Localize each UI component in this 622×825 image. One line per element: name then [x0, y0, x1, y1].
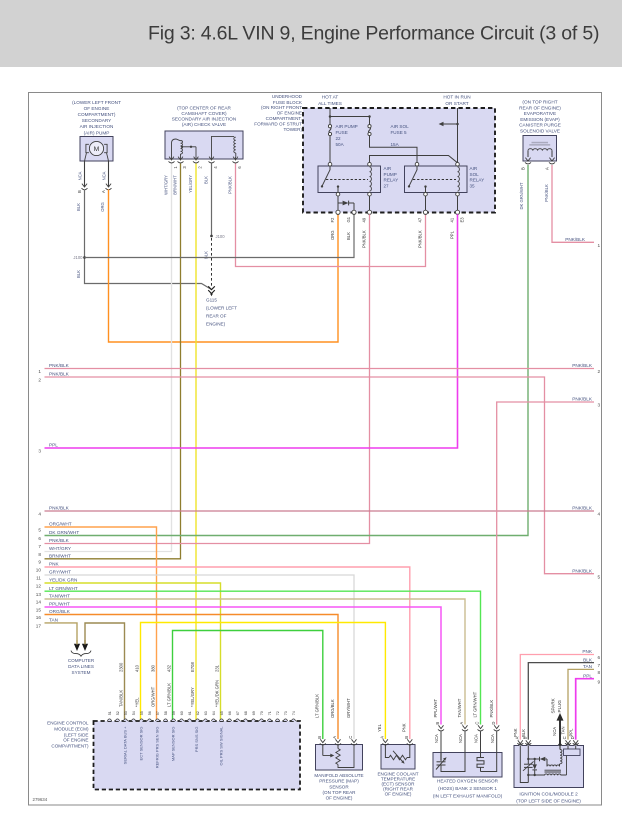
- wire ORG air pump A to fuse block pin F2: [100, 190, 338, 343]
- wire BRN/WHT check valve 3 to left edge 9: [45, 164, 181, 559]
- svg-text:4: 4: [38, 512, 41, 517]
- svg-text:ORG: ORG: [330, 230, 335, 240]
- check valve pin 3: [178, 157, 188, 169]
- svg-text:2: 2: [598, 369, 601, 374]
- svg-text:CANISTER PURGE: CANISTER PURGE: [519, 123, 561, 128]
- svg-text:YEL/GRY: YEL/GRY: [188, 175, 193, 193]
- svg-text:ECT SENSOR SIG: ECT SENSOR SIG: [139, 727, 144, 761]
- svg-text:74: 74: [292, 711, 296, 715]
- svg-text:YEL/DK GRN: YEL/DK GRN: [49, 578, 77, 583]
- left edge connector 14 TAN/WHT: [36, 594, 70, 605]
- fuse block pin 49 bushing: [362, 210, 372, 222]
- svg-text:PNK/BLK: PNK/BLK: [565, 237, 586, 242]
- svg-text:3: 3: [598, 403, 601, 408]
- svg-text:PNK/BLK: PNK/BLK: [489, 700, 494, 718]
- EVAP solenoid symbol: [528, 142, 552, 157]
- svg-text:OF ENGINE: OF ENGINE: [277, 111, 302, 116]
- svg-text:AIR PUMP: AIR PUMP: [336, 124, 358, 129]
- wire BLK check valve 4 to splice J100: [203, 164, 211, 259]
- wire LT GRN/WHT left edge 13 to HO2S pin C: [45, 591, 481, 724]
- svg-text:CAMSHAFT COVER): CAMSHAFT COVER): [181, 111, 227, 116]
- wire PNK/BLK EVAP A to right edge 1: [544, 165, 594, 242]
- svg-text:59: 59: [172, 711, 176, 715]
- svg-text:PNK: PNK: [402, 723, 407, 732]
- svg-text:SOL: SOL: [470, 172, 480, 177]
- left edge connector 3 PPL: [38, 443, 58, 454]
- left edge connector 10 PNK: [36, 562, 60, 573]
- wire relay coil jumper: [370, 156, 458, 163]
- svg-text:PNK/BLK: PNK/BLK: [572, 506, 593, 511]
- svg-text:TAN/WHT: TAN/WHT: [457, 698, 462, 717]
- svg-text:1: 1: [598, 243, 601, 248]
- svg-text:OR START: OR START: [445, 101, 468, 106]
- svg-text:BLK: BLK: [346, 232, 351, 240]
- wire YEL/DK GRN left edge 12 to ECM pin 65: [45, 583, 221, 721]
- feed wire hot in run to relay coils: [456, 108, 459, 163]
- left edge connector 4 PNK/BLK: [38, 506, 69, 517]
- svg-text:*YEL/DK GRN: *YEL/DK GRN: [214, 680, 219, 707]
- svg-text:51: 51: [108, 711, 112, 715]
- connector arrow inside fuse block: [439, 122, 458, 126]
- svg-text:PNK/BLK: PNK/BLK: [418, 230, 423, 248]
- svg-text:OF ENGINE: OF ENGINE: [63, 738, 88, 743]
- fuse block pin G1 bushing: [346, 210, 356, 222]
- svg-text:9: 9: [598, 679, 601, 684]
- svg-text:PNK: PNK: [582, 649, 593, 654]
- svg-text:TAN: TAN: [49, 618, 58, 623]
- left edge connector 6 DK GRN/WHT: [38, 530, 79, 541]
- svg-text:G115: G115: [206, 298, 217, 303]
- svg-text:63: 63: [204, 711, 208, 715]
- HO2S sensing element internals: [436, 753, 465, 772]
- svg-text:55: 55: [140, 711, 144, 715]
- relay K27 coil output: [369, 196, 371, 210]
- check valve pin 2: [193, 157, 203, 169]
- relay K35 switch: [408, 162, 456, 196]
- svg-text:TAN/WHT: TAN/WHT: [49, 594, 70, 599]
- motor symbol M: [85, 141, 109, 161]
- svg-text:52: 52: [116, 711, 120, 715]
- svg-text:BLK: BLK: [76, 270, 81, 278]
- svg-text:C: C: [475, 722, 480, 725]
- svg-text:FUSE: FUSE: [336, 130, 348, 135]
- svg-text:14: 14: [36, 600, 42, 605]
- svg-text:57: 57: [156, 711, 160, 715]
- svg-text:PNK/BLK: PNK/BLK: [572, 568, 593, 573]
- svg-text:NCA: NCA: [552, 727, 557, 736]
- wire TAN right edge 8 to ignition coil C: [568, 669, 594, 739]
- svg-text:B: B: [77, 190, 82, 193]
- svg-text:MAP SENSOR SIG: MAP SENSOR SIG: [171, 727, 176, 762]
- svg-text:5: 5: [38, 528, 41, 533]
- svg-text:PPL/WHT: PPL/WHT: [433, 698, 438, 717]
- svg-text:2: 2: [38, 378, 41, 383]
- svg-text:PPL: PPL: [49, 443, 58, 448]
- fuse block pin F2 bushing: [330, 210, 340, 222]
- svg-text:ENGINE CONTROL: ENGINE CONTROL: [47, 720, 89, 725]
- svg-text:TAN: TAN: [561, 726, 566, 734]
- ECM pin wire 231 *YEL/DK GRN labels: [214, 664, 223, 765]
- svg-text:BLK: BLK: [583, 657, 593, 662]
- wire PNK/BLK left 2 to right 5: [45, 377, 595, 574]
- svg-text:NCA: NCA: [434, 734, 439, 743]
- wire PNK/BLK right edge 3 to HO2S pin D: [497, 402, 594, 725]
- svg-text:G1: G1: [346, 216, 351, 222]
- svg-text:B: B: [317, 736, 322, 739]
- wire BLK splice J100 to relay pin G1: [85, 214, 355, 257]
- svg-text:PNK/BLK: PNK/BLK: [362, 230, 367, 248]
- splice J100 (air pump branch): [73, 255, 85, 260]
- right edge connector 8 TAN: [583, 664, 601, 675]
- svg-text:3: 3: [182, 166, 187, 169]
- left edge connector 8 WHT/GRY: [38, 546, 72, 557]
- right edge connector 3 PNK/BLK: [572, 397, 600, 408]
- engine control module (ECM) label: [47, 720, 89, 748]
- svg-text:(LEFT SIDE: (LEFT SIDE: [64, 732, 89, 737]
- wire TAN/WHT left edge 14 to HO2S pin A: [45, 599, 466, 725]
- svg-text:MODULE (ECM): MODULE (ECM): [54, 726, 89, 731]
- svg-text:RELAY: RELAY: [470, 178, 485, 183]
- svg-text:(TOP LEFT SIDE OF ENGINE): (TOP LEFT SIDE OF ENGINE): [516, 798, 581, 803]
- wire PNK right edge 6 to ignition coil A: [520, 655, 594, 740]
- svg-text:D: D: [491, 722, 496, 725]
- ECT sensor box: [381, 745, 415, 770]
- svg-text:4: 4: [213, 166, 218, 169]
- secondary air injection (AIR) check valve label: [172, 106, 236, 127]
- left edge connector 7 PNK/BLK: [38, 538, 69, 549]
- svg-text:PNK/BLK: PNK/BLK: [227, 176, 232, 194]
- right edge connector 7 BLK: [583, 657, 600, 668]
- MAP sensor potentiometer internals: [323, 745, 354, 768]
- svg-text:EVAPORATIVE: EVAPORATIVE: [524, 111, 556, 116]
- computer data lines brace: [71, 651, 91, 657]
- svg-text:7: 7: [38, 544, 41, 549]
- svg-text:AIR INJECTION: AIR INJECTION: [80, 124, 114, 129]
- transformer T1 secondary (HV) winding: [560, 746, 562, 764]
- svg-text:SOLENOID VALVE: SOLENOID VALVE: [520, 129, 560, 134]
- wire label PNK/BLK: [418, 230, 423, 248]
- ECM pin wire 380 ORG/WHT labels: [150, 664, 159, 768]
- check valve pin 4: [209, 157, 219, 169]
- svg-text:PRESSURE (MAP): PRESSURE (MAP): [319, 779, 359, 784]
- svg-text:OF ENGINE: OF ENGINE: [84, 106, 110, 111]
- svg-text:NCA: NCA: [490, 734, 495, 743]
- svg-text:DK GRN/WHT: DK GRN/WHT: [49, 530, 79, 535]
- left edge connector 5 ORG/WHT: [38, 522, 71, 533]
- relay K27 coil: [368, 162, 372, 196]
- svg-text:TAN: TAN: [583, 664, 592, 669]
- svg-text:GRY/WHT: GRY/WHT: [49, 570, 71, 575]
- svg-text:B: B: [435, 722, 440, 725]
- relay K27 label: [384, 166, 399, 188]
- EVAP canister purge solenoid valve label: [519, 100, 561, 134]
- svg-text:22: 22: [336, 136, 342, 141]
- svg-text:E708: E708: [190, 662, 195, 672]
- svg-text:PNK/BLK: PNK/BLK: [572, 397, 593, 402]
- right edge connector 4 PNK/BLK: [572, 506, 600, 517]
- svg-text:56: 56: [148, 711, 152, 715]
- wire BLK right edge 7 to ignition coil B: [528, 663, 594, 740]
- svg-text:FORWARD OF STRUT: FORWARD OF STRUT: [254, 121, 302, 126]
- svg-text:RELAY: RELAY: [384, 178, 399, 183]
- svg-text:66: 66: [228, 711, 232, 715]
- ignition module bottom rail: [528, 774, 544, 776]
- svg-text:SENSOR: SENSOR: [329, 784, 349, 789]
- svg-text:(TOP CENTER OF REAR: (TOP CENTER OF REAR: [177, 106, 231, 111]
- wire PNK/BLK full width line left 1 / right 2: [45, 368, 595, 370]
- svg-text:(LOWER LEFT: (LOWER LEFT: [206, 306, 237, 311]
- svg-text:10: 10: [36, 568, 42, 573]
- left edge connector 17 TAN: [36, 618, 58, 629]
- ECT sensor label: [377, 771, 418, 796]
- wire LT GRN/BLK ECM pin 59 to MAP sensor B: [173, 631, 323, 740]
- svg-text:68: 68: [244, 711, 248, 715]
- svg-text:ORG/BLK: ORG/BLK: [330, 699, 335, 718]
- MAP sensor label: [314, 773, 363, 800]
- svg-text:16: 16: [36, 615, 42, 620]
- wire PPL right edge 9 to ignition coil D: [576, 679, 594, 740]
- svg-text:FUSE 5: FUSE 5: [391, 130, 408, 135]
- EVAP solenoid valve box: [523, 136, 557, 162]
- transformer T1 secondary bottom winding: [545, 774, 567, 776]
- svg-text:5: 5: [598, 574, 601, 579]
- left edge connector 9 BRN/WHT: [38, 554, 71, 565]
- HO2S pin D connector: [490, 722, 500, 753]
- svg-text:(IN LEFT EXHAUST MANIFOLD): (IN LEFT EXHAUST MANIFOLD): [433, 793, 503, 798]
- svg-text:HOT AT: HOT AT: [322, 95, 339, 100]
- svg-text:NCA: NCA: [102, 171, 107, 180]
- svg-text:HEATED OXYGEN SENSOR: HEATED OXYGEN SENSOR: [437, 778, 499, 783]
- wire PNK/BLK full width line 4: [45, 510, 595, 512]
- svg-text:BRN/WHT: BRN/WHT: [172, 175, 177, 195]
- svg-text:ENGINE): ENGINE): [206, 322, 226, 327]
- svg-text:(ON RIGHT FRONT: (ON RIGHT FRONT: [261, 105, 302, 110]
- ECM dashed box: [94, 721, 301, 790]
- fuse F22 AIR PUMP FUSE symbol: [328, 125, 331, 163]
- MAP sensor pin B connector: [317, 736, 326, 745]
- wire PPL relay pin 41 to left edge 3: [45, 214, 458, 448]
- ECM pin wire E708 *YEL/GRY labels: [190, 662, 199, 753]
- svg-text:PNK/BLK: PNK/BLK: [49, 506, 70, 511]
- svg-text:73: 73: [284, 711, 288, 715]
- left edge connector 13 LT GRN/WHT: [36, 586, 78, 597]
- svg-text:DK GRN/WHT: DK GRN/WHT: [519, 182, 524, 209]
- svg-text:LT GRN/BLK: LT GRN/BLK: [166, 683, 171, 707]
- svg-text:C: C: [562, 736, 567, 739]
- svg-text:COMPARTMENT): COMPARTMENT): [78, 112, 116, 117]
- svg-text:PPL: PPL: [568, 728, 573, 737]
- left edge connector 11 GRY/WHT: [36, 570, 71, 581]
- svg-text:EMISSION (EVAP): EMISSION (EVAP): [520, 117, 560, 122]
- splice J100 (check valve branch): [210, 234, 225, 239]
- svg-text:62: 62: [196, 711, 200, 715]
- wire TAN/BLK ECM pin 53 to computer data lines: [85, 623, 125, 721]
- right edge connector 2 PNK/BLK: [572, 363, 600, 374]
- svg-text:13: 13: [36, 592, 42, 597]
- svg-text:A: A: [380, 736, 385, 739]
- svg-text:64: 64: [212, 711, 216, 715]
- fuse F22 value label: [336, 124, 358, 147]
- svg-text:WHT/GRY: WHT/GRY: [163, 175, 168, 195]
- right edge connector 9 PPL: [583, 673, 600, 684]
- svg-text:67: 67: [236, 711, 240, 715]
- svg-text:YEL: YEL: [377, 723, 382, 732]
- spark plug output arrow: [551, 697, 564, 745]
- svg-text:LT GRN/WHT: LT GRN/WHT: [49, 586, 78, 591]
- wire TAN left edge 17 to computer data lines: [45, 623, 78, 645]
- svg-text:ORG/BLK: ORG/BLK: [49, 609, 71, 614]
- svg-text:PNK/BLK: PNK/BLK: [49, 363, 70, 368]
- svg-text:1: 1: [38, 369, 41, 374]
- svg-text:410: 410: [134, 664, 139, 672]
- svg-text:B: B: [404, 736, 409, 739]
- svg-text:1: 1: [173, 166, 178, 169]
- svg-text:A: A: [459, 722, 464, 725]
- svg-text:ALL TIMES: ALL TIMES: [318, 101, 342, 106]
- wire PNK/BLK relay pin 49 to left edge 7: [45, 214, 370, 543]
- svg-text:ORG: ORG: [100, 202, 105, 212]
- left edge connector 2 PNK/BLK: [38, 372, 69, 383]
- svg-text:REAR OF: REAR OF: [206, 314, 227, 319]
- ignition coil label: [516, 791, 581, 803]
- secondary air injection (AIR) pump label: [72, 100, 121, 135]
- svg-text:70: 70: [260, 711, 264, 715]
- left edge connector 15 PPL/WHT: [36, 602, 70, 613]
- wire ORG/BLK left edge 16 to MAP sensor A: [45, 615, 339, 740]
- svg-text:SECONDARY: SECONDARY: [82, 118, 112, 123]
- svg-text:27: 27: [384, 183, 390, 188]
- svg-text:PNK/BLK: PNK/BLK: [49, 372, 70, 377]
- svg-text:J100: J100: [216, 234, 226, 239]
- svg-text:15: 15: [36, 608, 42, 613]
- zener/capacitor symbol: [523, 761, 534, 770]
- diagram frame: [29, 93, 602, 806]
- svg-text:AIR SOL: AIR SOL: [391, 124, 410, 129]
- HO2S pin C connector: [474, 722, 484, 753]
- diode D3 (down): [532, 759, 537, 776]
- svg-text:B: B: [521, 167, 526, 170]
- svg-text:NCA: NCA: [474, 734, 479, 743]
- svg-text:41: 41: [450, 217, 455, 222]
- svg-text:(AIR) PUMP: (AIR) PUMP: [84, 130, 110, 135]
- wire ORG/WHT left edge 5 to ECM pin 57: [45, 527, 157, 721]
- svg-text:COMPARTMENT,: COMPARTMENT,: [266, 116, 302, 121]
- transformer T1 primary: [547, 759, 560, 766]
- figure number 279634: [33, 797, 48, 802]
- computer data lines system label: [68, 658, 95, 675]
- svg-text:380: 380: [150, 664, 155, 672]
- right edge connector 5 PNK/BLK: [572, 568, 600, 579]
- svg-text:PNK/BLK: PNK/BLK: [49, 538, 70, 543]
- svg-text:BLK: BLK: [76, 203, 81, 211]
- ignition module A/B input rails: [520, 746, 529, 783]
- svg-text:PNK: PNK: [49, 562, 60, 567]
- svg-text:REFRIG PRS SEN SIG: REFRIG PRS SEN SIG: [155, 727, 160, 769]
- svg-text:12: 12: [36, 584, 42, 589]
- svg-text:ORG/WHT: ORG/WHT: [150, 686, 155, 707]
- HO2S pin B connector: [434, 722, 444, 753]
- svg-text:2300: 2300: [118, 662, 123, 672]
- svg-text:54: 54: [132, 711, 136, 715]
- svg-text:SPARK: SPARK: [551, 697, 556, 713]
- svg-text:AIR: AIR: [470, 166, 478, 171]
- svg-text:60: 60: [180, 711, 184, 715]
- ignition coil terminal bumps: [518, 744, 577, 746]
- wire PPL/WHT left edge 15 to HO2S pin B: [45, 607, 442, 725]
- ground G115: [206, 286, 237, 326]
- MAP sensor box: [316, 745, 363, 771]
- MAP sensor pin A connector: [332, 736, 341, 745]
- svg-text:FUSE BLOCK: FUSE BLOCK: [273, 100, 303, 105]
- check valve pin 1: [169, 157, 179, 169]
- left edge connector 12 YEL/DK GRN: [36, 578, 78, 589]
- relay K27 AIR PUMP RELAY box: [318, 166, 381, 193]
- svg-text:2: 2: [198, 166, 203, 169]
- air pump pin A wire (to connector): [101, 161, 112, 193]
- svg-text:7: 7: [598, 663, 601, 668]
- computer data lines arrows: [74, 640, 88, 651]
- svg-text:8: 8: [598, 670, 601, 675]
- check valve box: [165, 131, 243, 159]
- svg-text:SERIAL DATA BUS +: SERIAL DATA BUS +: [123, 726, 128, 764]
- svg-text:72: 72: [276, 711, 280, 715]
- EVAP pin B: [521, 158, 532, 170]
- HO2S bank 2 sensor 1 box: [433, 753, 502, 778]
- underhood fuse block dashed box: [303, 108, 495, 213]
- svg-text:6: 6: [38, 536, 41, 541]
- right edge connector 6 PNK: [582, 649, 600, 660]
- wire fuse F5 to AIR SOL relay switch: [370, 136, 418, 163]
- svg-text:(HO2S) BANK 2 SENSOR 1: (HO2S) BANK 2 SENSOR 1: [438, 786, 497, 791]
- ECM pin wire 2300 TAN/BLK labels: [118, 662, 127, 764]
- diode D1: [338, 201, 354, 206]
- svg-text:71: 71: [268, 711, 272, 715]
- svg-text:OF ENGINE): OF ENGINE): [326, 795, 353, 800]
- left edge connector 1 PNK/BLK: [38, 363, 69, 374]
- air pump pin B wire (to connector): [77, 161, 88, 193]
- pin E3 label: [460, 217, 465, 223]
- svg-text:IGNITION COIL/MODULE 2: IGNITION COIL/MODULE 2: [519, 791, 578, 796]
- ignition coil wire labels: [513, 726, 573, 737]
- svg-text:A: A: [101, 190, 106, 193]
- svg-text:69: 69: [252, 711, 256, 715]
- svg-text:PNK/BLK: PNK/BLK: [544, 184, 549, 202]
- module resistor block: [564, 746, 581, 776]
- svg-text:SECONDARY AIR INJECTION: SECONDARY AIR INJECTION: [172, 117, 236, 122]
- wire GRY/WHT left edge 11 to MAP sensor C: [45, 575, 355, 739]
- svg-text:35: 35: [470, 183, 476, 188]
- svg-text:MANIFOLD ABSOLUTE: MANIFOLD ABSOLUTE: [314, 773, 363, 778]
- svg-text:53: 53: [124, 711, 128, 715]
- svg-text:PNK: PNK: [513, 728, 518, 737]
- svg-text:BRN/WHT: BRN/WHT: [49, 554, 71, 559]
- EVAP pin A: [545, 158, 556, 170]
- wire BLK air pump B to splice J100 and ground: [76, 190, 211, 290]
- svg-text:A: A: [332, 736, 337, 739]
- feed wire hot at all times to fuses: [329, 108, 371, 125]
- svg-text:SYSTEM: SYSTEM: [72, 670, 91, 675]
- ECM pin numbers 51-74: [108, 711, 296, 715]
- svg-text:(ON TOP RIGHT: (ON TOP RIGHT: [522, 100, 557, 105]
- svg-text:50A: 50A: [336, 142, 345, 147]
- wire label ORG: [330, 230, 335, 240]
- svg-text:J100: J100: [73, 255, 83, 260]
- svg-text:TOWER): TOWER): [283, 127, 302, 132]
- relay K35 label: [470, 166, 485, 188]
- svg-text:LT GRN/WHT: LT GRN/WHT: [473, 691, 478, 717]
- svg-text:PUMP: PUMP: [384, 172, 397, 177]
- svg-text:PPL: PPL: [450, 230, 455, 239]
